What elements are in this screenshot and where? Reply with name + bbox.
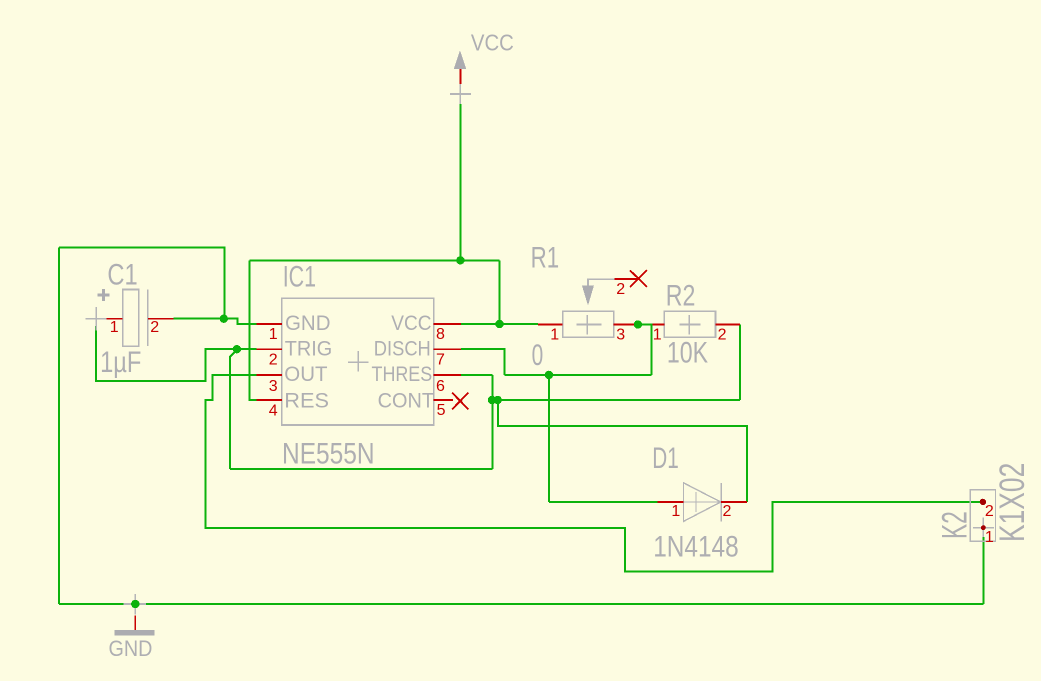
svg-text:VCC: VCC [391,311,431,335]
wire THRES pin6 stub [461,374,493,376]
wire riser to THRES pin6 [491,375,493,469]
junction dot R1.3 [634,320,642,328]
junction dot net0 b [494,396,502,404]
diode D1 [658,483,747,522]
wire D1 pin2 branch over the top [498,400,747,502]
wire right branch down to pin8 [499,260,501,324]
svg-text:CONT: CONT [378,389,434,413]
svg-text:8: 8 [436,326,445,343]
wire junction to IC pin1 GND [225,319,257,324]
capacitor C1 [86,289,174,346]
wire R2 pin2 drop [739,325,741,401]
svg-text:DISCH: DISCH [374,337,431,361]
wire TRIG branch down [230,350,237,469]
wire GND net bottom horizontal [59,603,984,605]
wire riser to R1.3/R2.1 [650,325,652,375]
svg-text:2: 2 [718,326,727,343]
wire bottom loop under IC [230,468,492,470]
pin 1 GND [256,323,281,325]
wire R1.3 to R2.1 link [634,324,653,326]
wire DISCH pin7 stub and elbow [461,349,505,375]
wire K2 pin1 drop [983,537,985,604]
svg-text:GND: GND [285,311,331,335]
svg-text:K1X02: K1X02 [993,463,1032,542]
svg-text:7: 7 [436,352,445,369]
power symbol VCC [450,51,471,105]
junction dot TRIG [233,345,241,353]
svg-text:10K: 10K [667,337,708,370]
pin 3 OUT [256,374,281,376]
resistor R2 [653,311,740,337]
IC1 NE555N box [282,298,434,425]
svg-text:2: 2 [150,319,159,336]
svg-text:GND: GND [109,636,153,661]
wire GND net top from left to C1 junction [59,247,225,318]
svg-text:R1: R1 [531,242,560,275]
svg-text:TRIG: TRIG [285,337,333,361]
junction dot net0 a [488,396,496,404]
svg-text:4: 4 [269,403,278,420]
svg-text:THRES: THRES [372,362,433,386]
svg-text:1: 1 [269,326,278,343]
svg-text:VCC: VCC [471,30,514,56]
svg-text:5: 5 [437,402,446,419]
svg-text:K2: K2 [935,511,974,539]
svg-text:RES: RES [284,389,329,413]
svg-text:0: 0 [532,339,544,372]
svg-text:C1: C1 [107,258,137,291]
wire GND net left vertical [58,247,60,604]
svg-text:R2: R2 [666,280,696,313]
svg-text:6: 6 [436,378,445,395]
pin 2 TRIG [256,348,281,350]
wire pin8 to R1 pin1 [461,323,538,325]
svg-text:1: 1 [671,503,680,520]
pin 5 CONT with no-connect X [434,399,453,401]
svg-text:D1: D1 [652,442,679,475]
svg-text:2: 2 [616,281,625,298]
svg-text:1: 1 [110,319,119,336]
svg-text:2: 2 [269,352,278,369]
junction dot DISCH branch [545,371,553,379]
wire DISCH drop to D1 level [548,375,550,502]
svg-text:1N4148: 1N4148 [653,531,739,564]
svg-text:3: 3 [616,326,625,343]
junction dot C1 pin2 [220,315,228,323]
pin 7 DISCH [434,348,461,350]
svg-text:NE555N: NE555N [282,438,375,471]
wire DISCH horizontal [504,374,651,376]
svg-text:IC1: IC1 [283,260,316,293]
wire OUT pin3 to K2 pin2 [206,375,980,572]
pin 8 VCC [434,323,461,325]
junction dot pin8 [495,320,503,328]
wire left branch down to RES pin4 [249,260,256,400]
svg-text:2: 2 [723,503,732,520]
wire top horizontal VCC net [249,259,499,261]
pin 6 THRES [434,374,461,376]
ground symbol GND [115,594,155,635]
svg-text:1: 1 [653,326,662,343]
junction dot VCC top [456,256,464,264]
wire VCC vertical drop [459,104,461,260]
connector K2 K1X02 [970,490,995,542]
wire C1 pin1 loop to TRIG [96,326,256,381]
IC1 center cross [348,361,369,363]
svg-text:1: 1 [550,326,559,343]
svg-text:3: 3 [269,378,278,395]
wire C1 pin2 to junction [174,318,225,320]
svg-text:OUT: OUT [284,362,327,386]
pin 4 RES [256,399,281,401]
wire to D1 pin1 [549,501,658,503]
svg-text:1µF: 1µF [100,346,141,379]
potentiometer R1 [538,270,647,337]
wire net 0 horizontal y400 [492,399,740,401]
